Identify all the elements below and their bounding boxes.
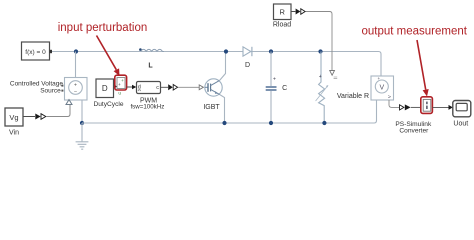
svg-text:D: D xyxy=(102,84,108,93)
PWM generator block xyxy=(137,82,161,94)
svg-text:Vin: Vin xyxy=(9,130,19,137)
node junction ground xyxy=(80,121,84,125)
svg-text:Rload: Rload xyxy=(273,22,291,29)
constant block R xyxy=(274,4,292,20)
wire into converter xyxy=(411,106,421,108)
constant block Vg xyxy=(5,108,23,126)
converter arrows PS-Simulink (sensor) xyxy=(400,104,411,110)
svg-text:c: c xyxy=(156,85,159,91)
label D xyxy=(245,62,250,69)
constant block DutyCycle xyxy=(96,79,114,98)
wire CVS bottom lead xyxy=(81,100,83,123)
node junction capacitor bottom xyxy=(269,121,273,125)
wire R output xyxy=(291,11,295,13)
controlled voltage source U1 xyxy=(61,78,87,105)
port arrow gate xyxy=(199,85,203,90)
label L xyxy=(148,62,153,69)
svg-text:C: C xyxy=(282,85,287,92)
svg-text:output measurement: output measurement xyxy=(361,25,467,37)
label C xyxy=(282,85,287,92)
inductor L xyxy=(139,48,164,51)
wire IGBT emitter xyxy=(220,95,225,123)
wire PWM output xyxy=(161,86,169,88)
svg-text:Source: Source xyxy=(40,87,61,94)
sum block (perturbation add) xyxy=(117,78,125,89)
svg-text:u: u xyxy=(118,92,121,97)
annotation arrow 1 xyxy=(97,36,120,77)
node junction variable resistor bottom xyxy=(322,121,326,125)
svg-text:input perturbation: input perturbation xyxy=(58,22,148,34)
wire sum to PWM xyxy=(127,85,137,90)
annotation input perturbation xyxy=(58,22,148,34)
label DutyCycle xyxy=(93,101,123,108)
svg-text:Vg: Vg xyxy=(9,113,18,122)
highlight box input perturbation xyxy=(115,75,127,90)
svg-text:R: R xyxy=(279,7,285,16)
highlight box output measurement xyxy=(421,97,433,114)
svg-text:L: L xyxy=(148,62,153,69)
svg-text:−: − xyxy=(74,90,77,96)
label Variable R xyxy=(337,93,369,100)
ground electrical reference xyxy=(76,123,89,149)
port arrow variable resistor control xyxy=(330,71,338,79)
label Rload xyxy=(273,22,291,29)
solver block f(x)=0 xyxy=(22,42,53,60)
wire R to variable resistor control xyxy=(306,12,333,71)
label Controlled Voltage Source xyxy=(10,81,64,95)
svg-text:Uout: Uout xyxy=(453,120,468,127)
svg-text:IGBT: IGBT xyxy=(203,104,220,111)
svg-text:+: + xyxy=(121,78,124,83)
wire Vg output xyxy=(23,116,35,118)
wire CVS top lead xyxy=(75,52,77,78)
wire converter to scope xyxy=(432,105,452,110)
label PWM fsw=100kHz xyxy=(130,98,164,111)
node junction collector xyxy=(224,49,228,53)
wire Vg to CVS input xyxy=(46,105,70,117)
scope Uout xyxy=(453,101,471,117)
converter arrows Simulink-PS (R) xyxy=(296,9,306,15)
svg-text:D: D xyxy=(245,62,250,69)
node junction CVS top xyxy=(74,49,78,53)
svg-text:DutyCycle: DutyCycle xyxy=(93,101,123,108)
node junction capacitor top xyxy=(269,49,273,53)
svg-text:+: + xyxy=(377,76,380,81)
label PS-Simulink Converter xyxy=(395,121,432,134)
label Uout xyxy=(453,120,468,127)
wire top rail xyxy=(52,52,381,77)
svg-text:Converter: Converter xyxy=(399,128,429,135)
svg-text:f(x) = 0: f(x) = 0 xyxy=(25,49,46,56)
port label u xyxy=(118,92,121,97)
wire gate PS line xyxy=(178,86,199,88)
node junction emitter xyxy=(222,121,226,125)
label IGBT xyxy=(203,104,220,111)
svg-text:+: + xyxy=(273,77,276,83)
svg-text:>: > xyxy=(388,95,391,101)
voltage sensor xyxy=(371,76,394,101)
converter arrows Simulink-PS (PWM) xyxy=(168,84,177,90)
svg-text:Variable R: Variable R xyxy=(337,93,369,100)
PS-Simulink converter block xyxy=(423,99,431,111)
variable resistor xyxy=(316,52,329,124)
label Vin xyxy=(9,130,19,137)
svg-text:fsw=100kHz: fsw=100kHz xyxy=(130,104,164,111)
wire bottom rail xyxy=(82,100,377,123)
capacitor C xyxy=(266,52,277,124)
wire DutyCycle to sum xyxy=(114,85,118,88)
transistor IGBT xyxy=(205,79,222,96)
diode D xyxy=(243,47,252,56)
node junction variable resistor top xyxy=(318,49,322,53)
annotation arrow 2 xyxy=(417,40,429,97)
converter arrows Simulink-PS (Vg) xyxy=(35,114,46,120)
wire IGBT collector xyxy=(219,52,225,81)
annotation output measurement xyxy=(361,25,467,37)
wire sensor output xyxy=(389,100,399,107)
svg-text:+: + xyxy=(74,82,77,88)
svg-text:V: V xyxy=(379,84,384,91)
svg-text:+: + xyxy=(319,74,322,80)
